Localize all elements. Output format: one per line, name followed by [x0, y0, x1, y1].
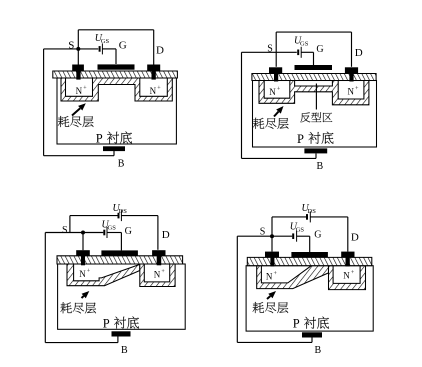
wire P3 outer loop left — [44, 233, 46, 343]
wire P3 G vertical — [120, 233, 122, 251]
label UGS — [294, 36, 309, 48]
wire P3 battery to G — [107, 232, 121, 234]
substrate P3 box — [58, 264, 186, 329]
S contact plug P1 — [76, 71, 80, 80]
wire P2 outer loop bottom — [242, 157, 317, 159]
D contact pad P1 — [147, 65, 160, 72]
svg-text:B: B — [121, 345, 128, 356]
svg-text:S: S — [260, 227, 266, 238]
wire P3 outer loop bottom — [45, 342, 118, 344]
battery UGS P4 — [293, 231, 296, 242]
svg-text:B: B — [317, 161, 324, 172]
wire P1 battery to G — [102, 48, 116, 50]
svg-text:B: B — [315, 345, 322, 356]
wire P3 B stub — [117, 336, 119, 342]
wire P1 G vertical — [115, 49, 117, 64]
substrate P4 box — [246, 266, 373, 331]
wire P2 outer loop left — [241, 52, 243, 158]
battery UDS P3 — [119, 210, 122, 221]
depletion layer P4 left+wedge (hatched) — [257, 266, 329, 289]
D contact pad P3 — [152, 250, 165, 256]
D contact plug P3 — [157, 256, 162, 265]
label depletion-layer (Chinese) P4 — [253, 302, 289, 313]
S contact plug P3 — [81, 256, 85, 265]
wire P1 D vertical — [153, 30, 155, 65]
wire P2 battery to G — [301, 51, 313, 53]
oxide layer P2 (hatched bar) — [252, 74, 376, 81]
B contact bar P3 — [112, 331, 131, 336]
svg-text:GS: GS — [296, 226, 305, 233]
node S junction P1 — [76, 47, 80, 51]
wire P4 battery to G — [297, 235, 310, 237]
wire P3 top-wire left vertical — [69, 216, 71, 233]
pointer line inversion region P2 — [315, 84, 317, 110]
wire P4 G vertical — [309, 236, 311, 253]
wire P4 top left segment — [272, 216, 306, 218]
svg-text:GS: GS — [101, 38, 110, 45]
node S junction P4 — [270, 234, 274, 238]
depletion layer P3 left+wedge (hatched) — [67, 264, 140, 286]
D contact plug P2 — [349, 74, 353, 82]
gate electrode P2 — [295, 65, 333, 70]
svg-text:GS: GS — [108, 224, 117, 231]
battery UGS P3 — [104, 227, 107, 238]
oxide layer P1 (hatched bar) — [53, 71, 178, 78]
label depletion-layer (Chinese) P2 — [253, 118, 289, 129]
S contact plug P2 — [274, 74, 278, 82]
depletion layer P2 (hatched) — [259, 81, 369, 105]
svg-text:DS: DS — [119, 208, 128, 215]
B contact bar P1 — [103, 146, 125, 151]
wire P4 B stub — [311, 337, 313, 342]
svg-text:+: + — [87, 269, 91, 275]
wire P4 outer loop left — [236, 236, 238, 342]
S contact pad P3 — [76, 250, 90, 256]
wire P3 D vertical — [157, 216, 159, 250]
svg-text:N: N — [79, 269, 86, 279]
svg-text:N: N — [266, 272, 273, 282]
svg-text:P: P — [293, 317, 300, 331]
svg-text:P: P — [297, 132, 304, 146]
D contact pad P4 — [341, 252, 354, 258]
svg-text:S: S — [68, 40, 74, 52]
svg-text:D: D — [351, 232, 359, 244]
label UGS — [95, 33, 110, 45]
wire P1 outer loop bottom — [44, 155, 114, 157]
depletion layer P1 (hatched) — [61, 78, 172, 101]
label UDS — [113, 203, 128, 215]
svg-text:G: G — [316, 44, 323, 55]
arrow to depletion layer P3 — [82, 291, 90, 298]
S contact pad P2 — [269, 67, 282, 73]
gate electrode P4 — [291, 252, 328, 257]
S contact pad P1 — [72, 65, 84, 72]
B contact bar P2 — [304, 148, 327, 153]
battery UGS P1 — [100, 43, 103, 54]
wire P1 B stub — [113, 151, 115, 156]
label substrate (Chinese) P4 — [304, 317, 329, 329]
label depletion-layer (Chinese) P3 — [60, 302, 96, 313]
node S junction P3 — [81, 231, 85, 235]
S contact pad P4 — [265, 252, 279, 258]
svg-text:S: S — [62, 225, 68, 236]
label inversion-region (Chinese) P2 — [300, 112, 332, 122]
depletion layer P3 right well (hatched) — [140, 264, 175, 287]
substrate P1 box — [57, 78, 176, 144]
svg-text:D: D — [355, 47, 363, 59]
wire P1 S horizontal to UGS battery — [44, 48, 99, 50]
wire P2 D vertical — [351, 32, 353, 67]
wire P4 top right segment — [310, 216, 348, 218]
label UGS — [102, 219, 117, 231]
svg-text:D: D — [156, 44, 164, 56]
S contact plug P4 — [270, 257, 274, 266]
arrow to depletion layer P1 — [72, 103, 86, 115]
oxide layer P3 (hatched bar) — [57, 256, 183, 264]
wire P2 top S-to-D — [276, 31, 351, 33]
svg-text:P: P — [96, 132, 103, 146]
wire P3 top right segment — [121, 215, 157, 217]
wire P3 S horizontal to UGS battery — [45, 232, 103, 234]
svg-text:N: N — [348, 87, 355, 97]
svg-text:P: P — [103, 317, 110, 331]
label depletion-layer (Chinese) P1 — [58, 116, 94, 127]
label substrate (Chinese) P2 — [309, 132, 334, 144]
label UGS — [290, 221, 305, 233]
wire P1 S vertical — [77, 30, 79, 65]
battery UGS P2 — [298, 47, 301, 58]
wire P2 G vertical — [313, 52, 315, 65]
D contact plug P1 — [152, 71, 156, 80]
arrow to depletion layer P4 — [267, 291, 276, 299]
wire P1 outer loop left — [43, 49, 45, 156]
wire P4 S horizontal to UGS battery — [237, 235, 292, 237]
svg-text:B: B — [118, 159, 125, 170]
B contact bar P4 — [302, 332, 322, 337]
gate electrode P3 — [101, 250, 137, 255]
svg-text:DS: DS — [308, 208, 317, 215]
label substrate (Chinese) P1 — [107, 131, 132, 143]
wire P4 outer loop bottom — [237, 341, 312, 343]
depletion layer P4 right well (hatched) — [329, 266, 366, 290]
svg-text:G: G — [314, 230, 321, 241]
wire P2 S vertical — [275, 32, 277, 67]
svg-text:N: N — [343, 271, 350, 281]
wire P4 D vertical — [347, 217, 349, 252]
wire P3 top left segment — [70, 215, 118, 217]
svg-text:G: G — [125, 226, 132, 237]
wire P1 top S-to-D — [78, 29, 153, 31]
battery UDS P4 — [307, 211, 310, 222]
wire P4 S vertical — [271, 217, 273, 252]
label UDS — [302, 203, 317, 215]
svg-text:N: N — [269, 87, 276, 97]
arrow to depletion layer P2 — [274, 106, 284, 117]
svg-text:G: G — [119, 40, 127, 52]
label substrate (Chinese) P3 — [114, 316, 139, 328]
svg-text:GS: GS — [300, 41, 309, 48]
wire P3 S stem — [82, 233, 84, 251]
wire P2 B stub — [315, 153, 317, 158]
gate electrode P1 — [98, 64, 135, 69]
D contact pad P2 — [345, 67, 358, 73]
svg-text:D: D — [162, 229, 170, 241]
svg-text:N: N — [76, 86, 83, 96]
D contact plug P4 — [346, 257, 350, 266]
oxide layer P4 (hatched bar) — [247, 257, 371, 265]
substrate P2 box — [253, 81, 377, 148]
svg-text:N: N — [154, 270, 161, 280]
svg-text:S: S — [267, 44, 273, 55]
svg-text:N: N — [150, 86, 157, 96]
wire P2 S horizontal to UGS battery — [242, 51, 297, 53]
